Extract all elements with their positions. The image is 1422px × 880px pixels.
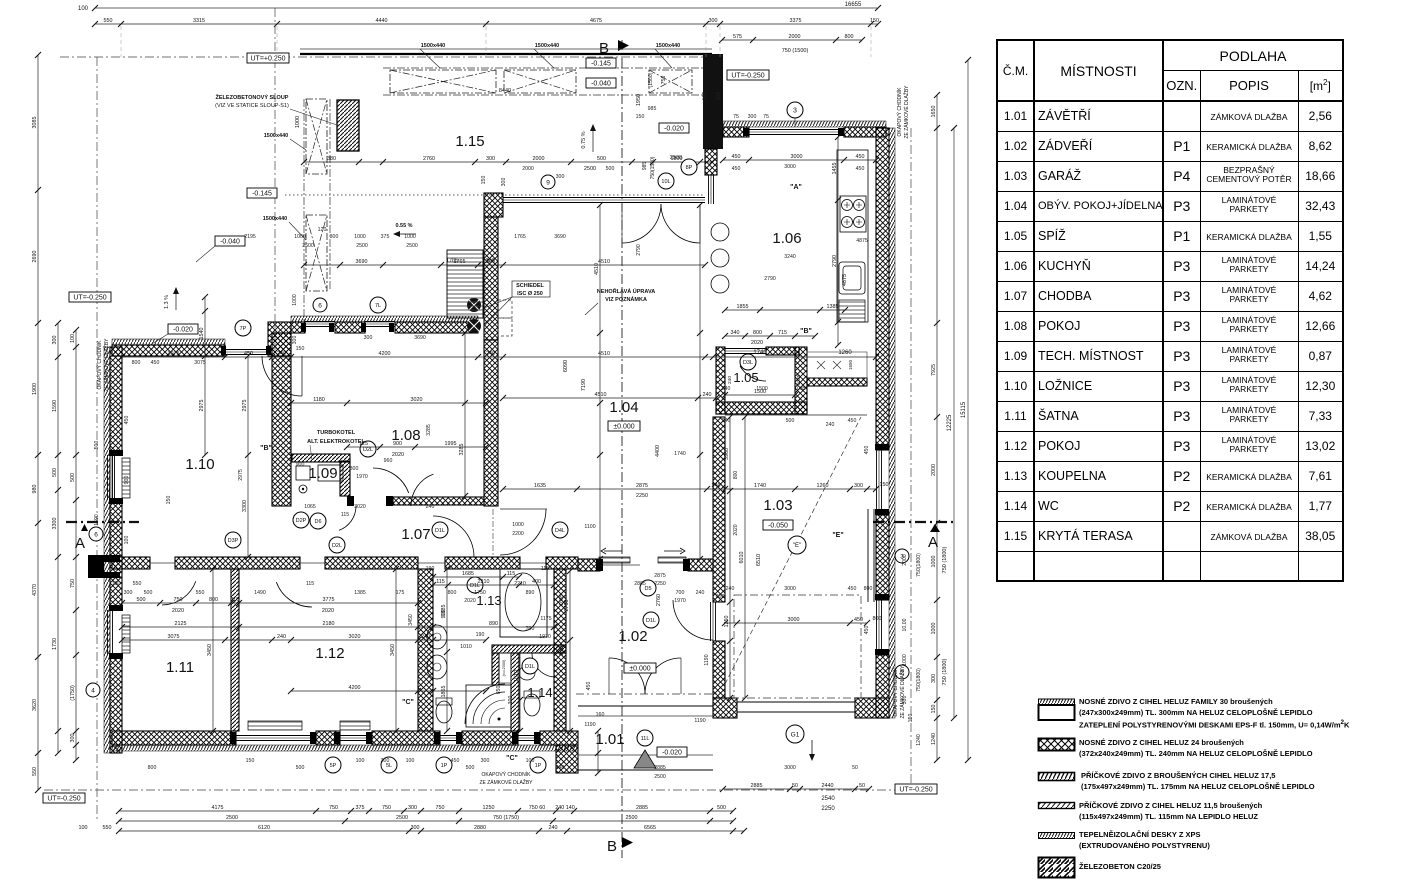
svg-text:4370: 4370 [32,584,38,596]
radiator under window 5L [340,721,370,730]
svg-text:240: 240 [549,825,558,831]
svg-text:300: 300 [716,92,722,101]
vchain x570 [564,568,573,734]
svg-text:1740: 1740 [753,350,767,356]
svg-text:450: 450 [848,418,857,424]
level box UT=-0.250 bottom right [895,784,937,794]
svg-text:115: 115 [541,566,549,572]
wall interior y557 segment d [445,557,520,569]
svg-text:1490: 1490 [254,590,266,596]
door arc terrace to 1.04 leaf L [622,204,661,243]
wall south segment 4 [462,731,518,745]
grid circle 3 right [895,549,909,563]
kitchen counter outline [837,150,868,322]
svg-text:150: 150 [931,705,937,714]
svg-text:2000: 2000 [931,464,937,476]
svg-text:240: 240 [712,483,721,489]
svg-text:1000: 1000 [512,522,524,528]
svg-text:2250: 2250 [654,581,666,587]
svg-text:1740: 1740 [674,451,686,457]
svg-text:3300: 3300 [242,500,248,512]
svg-text:D2L: D2L [363,447,373,453]
svg-text:ZE ZÁMKOVÉ DLAŽBY: ZE ZÁMKOVÉ DLAŽBY [479,778,533,786]
svg-text:1765: 1765 [425,261,426,262]
mark circle 7L at 378,305 [370,297,386,313]
svg-text:-0.145: -0.145 [591,60,611,67]
radiator under window 5P [248,721,302,730]
svg-text:2210: 2210 [514,581,526,587]
door arc 1.14 WC [532,653,556,677]
svg-text:50: 50 [792,783,798,789]
svg-text:120: 120 [318,227,327,233]
svg-text:(v.o.2000): (v.o.2000) [502,659,506,677]
svg-text:D1L: D1L [435,528,445,534]
mark circle D2L at 337,545 [329,537,345,553]
bottom chain row3 [116,825,747,834]
legend swatch 2 heluz 24 crosshatch [1037,737,1077,753]
vchain x600 [594,202,603,562]
svg-text:ŽELEZOBETONOVÝ SLOUP: ŽELEZOBETONOVÝ SLOUP [216,93,289,101]
svg-text:175: 175 [396,590,405,596]
svg-text:750 (1750): 750 (1750) [493,815,519,821]
vchain x213 [207,566,216,734]
svg-text:VIZ POZNÁMKA: VIZ POZNÁMKA [605,296,647,303]
garage right wall lines [867,509,869,602]
svg-text:D2P: D2P [296,518,307,524]
svg-text:1P: 1P [441,763,448,769]
terrace left footing rails [303,99,305,330]
svg-text:6: 6 [318,302,322,309]
svg-text:900: 900 [124,476,130,485]
mark circle D2L at 368,449 [360,441,376,457]
svg-text:800: 800 [350,466,359,472]
svg-text:300: 300 [902,696,908,705]
svg-text:500: 500 [606,166,615,172]
svg-text:1635: 1635 [559,594,565,606]
legend text 1 [1079,697,1349,731]
svg-text:1000: 1000 [295,116,301,128]
svg-text:100: 100 [406,758,415,764]
svg-text:1650: 1650 [848,359,853,370]
mark circle D5 at 648,588 [640,580,656,596]
svg-text:15115: 15115 [961,401,967,418]
svg-text:3285: 3285 [426,424,432,436]
legend text 6 [1079,862,1161,873]
door arc garage side door [673,600,713,640]
svg-text:3000: 3000 [788,617,800,623]
svg-text:1.05: 1.05 [733,370,758,385]
entry triangle 11L [634,750,656,768]
svg-text:11L: 11L [641,736,650,742]
svg-text:2125: 2125 [175,621,187,627]
svg-text:4510: 4510 [595,392,607,398]
svg-text:1000: 1000 [902,654,908,666]
footing pad 1500x440 top-1 [390,70,496,93]
window 1P south b [518,735,540,737]
svg-text:500: 500 [717,805,726,811]
svg-text:3450: 3450 [408,614,414,626]
svg-text:3775: 3775 [323,597,335,603]
wall chimney top block [484,193,503,217]
svg-text:1765: 1765 [446,258,458,264]
vchain x700 [697,202,703,562]
svg-text:OKAPOVÝ CHODNÍK: OKAPOVÝ CHODNÍK [892,667,899,717]
dimension chain top overall 16655 [78,2,881,12]
wall pantry west [716,347,725,414]
svg-text:800: 800 [209,597,218,603]
svg-text:D1L: D1L [646,618,656,624]
svg-text:2500: 2500 [302,243,314,249]
svg-text:1385: 1385 [354,590,366,596]
svg-text:240: 240 [727,376,733,384]
svg-text:1250: 1250 [724,616,730,628]
wall south 1.04 segment a [578,559,600,571]
svg-text:4400: 4400 [655,445,661,457]
grid circle 6 left [89,527,103,541]
legend text 3 [1081,771,1315,792]
svg-text:7925: 7925 [931,364,937,376]
svg-text:2885: 2885 [751,783,763,789]
svg-text:1740: 1740 [754,483,766,489]
svg-text:750 (1800): 750 (1800) [942,547,948,574]
svg-text:300: 300 [364,335,373,341]
black jambs outer windows [109,128,889,744]
svg-text:550: 550 [133,581,142,587]
svg-text:3620: 3620 [32,699,38,711]
svg-text:2975: 2975 [242,400,248,412]
svg-text:16655: 16655 [845,2,862,8]
svg-text:1180: 1180 [313,397,325,403]
svg-text:240: 240 [426,504,435,510]
svg-text:300: 300 [486,258,495,264]
svg-text:2500: 2500 [226,815,238,821]
window 6L west wall [109,455,112,500]
wall south of 1.08 [393,497,484,505]
svg-text:750: 750 [329,805,338,811]
svg-text:6: 6 [94,531,98,538]
svg-text:1P: 1P [535,763,542,769]
svg-text:4200: 4200 [349,685,361,691]
svg-text:75: 75 [763,114,769,120]
svg-text:2690: 2690 [32,251,38,263]
svg-text:240: 240 [696,590,705,596]
svg-text:1190: 1190 [584,722,595,728]
svg-text:2760: 2760 [423,156,435,162]
svg-text:3075: 3075 [168,634,180,640]
svg-text:100: 100 [356,758,365,764]
svg-text:1730: 1730 [52,638,58,650]
door arc terrace to 1.04 leaf R [661,204,700,243]
svg-text:240: 240 [486,351,495,357]
wall chimney lower vertical [484,340,498,506]
svg-text:100: 100 [79,825,88,831]
wall right of 1.09 [340,461,350,496]
svg-text:240: 240 [277,351,286,357]
svg-text:2195: 2195 [244,234,256,240]
svg-text:3960: 3960 [724,448,730,460]
svg-text:1015: 1015 [559,644,565,656]
svg-text:1950: 1950 [636,94,642,106]
chain y403 [288,397,489,406]
shower glass partition box [499,653,511,683]
door arc corridor D2L west [373,468,409,493]
boundary dash-dot left vertical [96,57,98,820]
svg-text:300: 300 [748,114,757,120]
wall west of bathroom x418 [418,569,433,731]
boiler in 1.09 [296,466,310,480]
svg-text:"A": "A" [790,184,802,191]
entry porch steps [578,705,713,707]
wall interior y557 segment b [175,557,300,569]
level box -0.040 terrace [586,78,616,88]
radiator west wall 1.11 [122,615,130,653]
svg-text:ZE ZÁMKOVÉ DLAŽBY: ZE ZÁMKOVÉ DLAŽBY [102,338,110,392]
svg-text:1000: 1000 [294,234,306,240]
svg-text:300: 300 [486,156,495,162]
entry double door leaf L [609,658,645,694]
dimension chain right outer 15115 [961,57,971,763]
wall garage west segment 2 [713,641,725,698]
svg-text:"C": "C" [506,755,518,762]
svg-text:150: 150 [296,346,305,352]
svg-text:375: 375 [356,805,365,811]
wall north 1.10 [112,345,225,356]
svg-text:"B": "B" [260,445,272,452]
svg-text:"C": "C" [402,699,414,706]
wall east outer segment 2 [876,515,889,600]
svg-text:6010: 6010 [739,552,745,564]
svg-text:-0.145: -0.145 [252,190,272,197]
svg-text:550: 550 [104,18,113,24]
svg-text:450: 450 [864,626,870,635]
door arc corridor to 1.08 [411,474,433,506]
svg-text:4875: 4875 [842,274,848,286]
legend shared patterns svg [0,0,1,1]
window east 2 [876,600,878,655]
door arc 1.05 pantry [740,366,766,381]
svg-text:800: 800 [845,34,854,40]
svg-text:800: 800 [716,594,725,600]
svg-text:1010: 1010 [514,670,520,682]
mark circle 10L at 666,181 [658,173,674,189]
svg-text:2875: 2875 [636,483,648,489]
svg-text:2885: 2885 [636,805,648,811]
wall garage south corner E [855,698,889,718]
svg-text:-0.040: -0.040 [220,238,240,245]
svg-text:2200: 2200 [512,531,524,537]
chimney flue circles [467,298,481,312]
legend text 2 [1079,738,1313,759]
chain y310 [722,304,848,313]
svg-text:10,00: 10,00 [902,618,908,631]
svg-text:1000: 1000 [931,623,937,635]
svg-text:2500: 2500 [654,774,666,780]
mark circle D2P at 301,520 [293,512,309,528]
window east 1 [876,450,878,515]
svg-text:1650: 1650 [931,106,937,118]
svg-text:1.06: 1.06 [772,230,801,247]
svg-text:2790: 2790 [764,276,776,282]
svg-text:3690: 3690 [554,234,566,240]
vchain x520 [514,649,523,734]
wall pantry east [795,347,807,414]
svg-text:1190: 1190 [694,718,705,724]
wall east outer segment 3 [876,655,889,718]
svg-text:4200: 4200 [379,351,391,357]
svg-text:3315: 3315 [193,18,205,24]
svg-text:2500: 2500 [356,243,368,249]
svg-text:2500: 2500 [396,815,408,821]
svg-text:100: 100 [70,334,76,343]
svg-text:±0.000: ±0.000 [613,423,634,430]
window 5P south [236,735,316,737]
grid circle 3 kitchen [787,102,803,118]
extension lines bottom from south wall to chains [0,0,1,1]
chain y489 [500,483,879,492]
svg-text:240: 240 [826,422,835,428]
svg-text:D3P: D3P [228,538,239,544]
svg-text:750 (1500): 750 (1500) [782,48,809,54]
wall west outer segment 2 [110,500,122,610]
dimension chain top right third [719,34,865,43]
scattered small dimension numbers [112,106,873,780]
svg-text:D1L: D1L [525,664,535,670]
svg-text:300: 300 [556,174,565,180]
svg-text:985: 985 [648,106,657,112]
svg-text:1500: 1500 [756,386,768,392]
svg-text:3450: 3450 [207,644,213,656]
wall south segment 5 [540,731,578,745]
garage G1 circle and arrow [786,725,804,743]
svg-text:3300: 3300 [52,518,58,530]
kitchen stove 4 burners [840,196,866,232]
svg-text:450: 450 [856,154,865,160]
svg-text:190: 190 [426,566,435,572]
svg-text:3690: 3690 [414,335,426,341]
svg-text:150: 150 [908,714,914,723]
door garage side window [710,602,712,641]
room schedule table [996,39,1344,582]
svg-text:300: 300 [124,590,133,596]
svg-text:2790: 2790 [636,244,642,256]
svg-text:375: 375 [381,234,390,240]
svg-text:750: 750 [174,597,183,603]
mark circle 8P at 689,167 [681,159,697,175]
mark circle D4L at 560,530 [552,522,568,538]
svg-text:12225: 12225 [947,414,953,431]
window 7L north band [365,321,395,323]
svg-text:1000: 1000 [404,234,416,240]
svg-text:100: 100 [526,758,535,764]
svg-text:SCHIEDEL: SCHIEDEL [516,283,544,289]
svg-text:240: 240 [722,418,731,424]
svg-text:800: 800 [873,616,882,622]
svg-text:D2L: D2L [332,543,342,549]
svg-text:TURBOKOTEL: TURBOKOTEL [317,430,356,436]
dimension chain right x937 [931,92,940,763]
svg-text:160: 160 [596,712,605,718]
svg-text:750: 750 [661,76,667,85]
footing pad left vertical 1 [306,99,327,174]
svg-text:2180: 2180 [323,621,335,627]
svg-text:500: 500 [144,590,153,596]
svg-text:2210: 2210 [478,579,490,585]
svg-text:6090: 6090 [563,360,569,372]
svg-text:100: 100 [78,6,89,12]
svg-text:115: 115 [436,579,445,585]
svg-text:550: 550 [32,767,38,776]
svg-text:(1500): (1500) [648,72,654,87]
svg-text:ZE ZÁMKOVÉ DLAŽBY: ZE ZÁMKOVÉ DLAŽBY [902,85,910,139]
svg-text:2000: 2000 [522,166,534,172]
chain y640 [119,634,489,643]
wall between 1.13 and 1.14 [492,645,566,653]
svg-text:1.04: 1.04 [609,399,638,416]
scattered vertical dimension numbers [94,72,922,746]
svg-text:2440: 2440 [822,783,834,789]
svg-text:715: 715 [778,330,787,336]
door D2L opening corridor [418,562,445,564]
svg-text:300: 300 [481,758,490,764]
level box -0.040 left [215,236,245,246]
vchain x465 [459,330,468,499]
footing pad 1500x440 top-3 [649,70,692,93]
level box +-0.000 living [608,421,640,431]
wall entry block 1.01 [556,745,578,773]
svg-text:G1: G1 [791,731,800,738]
svg-text:150: 150 [166,496,172,505]
garage E circle [788,536,806,554]
svg-text:7L: 7L [375,303,381,309]
door arc 1.13 entry [433,516,474,557]
svg-text:1000: 1000 [931,556,937,568]
svg-text:"E": "E" [832,532,843,539]
svg-text:4875: 4875 [856,238,868,244]
svg-text:100: 100 [112,581,121,587]
svg-text:900: 900 [296,462,305,468]
svg-text:450: 450 [451,758,460,764]
svg-text:450: 450 [864,446,870,455]
window 8P terrace-kitchen [708,175,710,204]
extension lines left from west wall to chains [0,0,1,1]
svg-text:A: A [928,534,938,551]
svg-text:OKAPOVÝ CHODNÍK: OKAPOVÝ CHODNÍK [96,340,103,390]
entry double door leaf R [645,658,681,694]
svg-text:UT=-0.250: UT=-0.250 [899,786,932,793]
dimension chain left x76 [70,327,79,763]
svg-text:6565: 6565 [644,825,656,831]
terrace dotted roof line [285,194,705,196]
svg-text:1000: 1000 [354,234,366,240]
svg-text:ALT. ELEKTROKOTEL: ALT. ELEKTROKOTEL [307,439,365,445]
svg-text:300: 300 [381,758,390,764]
svg-text:550: 550 [103,825,112,831]
svg-text:1.14: 1.14 [527,685,552,700]
svg-text:0.75 %: 0.75 % [581,131,587,148]
svg-text:800: 800 [448,590,457,596]
mark circle 1P at 444,765 [436,757,452,773]
svg-text:7P: 7P [240,326,247,332]
svg-text:1500x440: 1500x440 [263,216,287,222]
svg-text:3000: 3000 [791,154,803,160]
mark circle 5L at 389,765 [381,757,397,773]
vchain x745 [739,414,748,701]
EPS insulation strip west [104,347,110,753]
bathtub 1.13 [500,569,547,637]
mark circle 7P at 243,328 [235,320,251,336]
svg-text:"B": "B" [800,328,812,335]
svg-text:3085: 3085 [32,117,38,129]
